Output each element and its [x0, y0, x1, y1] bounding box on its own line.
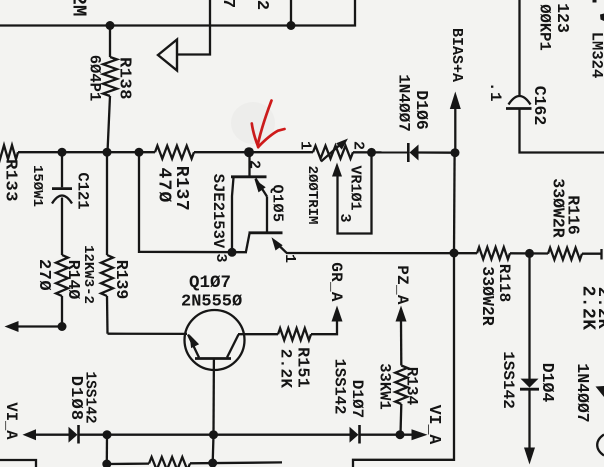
resistor R133 (cut at left edge): [0, 145, 18, 159]
node junction feedback: [135, 148, 144, 157]
svg-text:R133: R133: [0, 159, 19, 202]
node junction bottom mid: [208, 459, 217, 467]
node junction D104 top: [525, 249, 534, 258]
svg-text:47Ø: 47Ø: [154, 167, 174, 203]
svg-text:7: 7: [218, 0, 237, 8]
wire to open arrow: [178, 0, 210, 55]
svg-text:1: 1: [281, 254, 298, 263]
capacitor C121: [52, 152, 72, 255]
wire mid horizontal center: [194, 151, 313, 153]
resistor R151: [278, 328, 311, 340]
wire Q107 collector: [238, 333, 278, 335]
svg-text:3: 3: [212, 253, 229, 262]
svg-text:D1Ø6: D1Ø6: [412, 90, 431, 130]
node junction C121 top: [58, 148, 67, 157]
svg-text:2M: 2M: [68, 0, 90, 16]
resistor R116: [548, 248, 582, 260]
wire feedback loop: [139, 152, 247, 252]
svg-text:2.2K: 2.2K: [593, 287, 604, 330]
svg-text:VI_A: VI_A: [425, 405, 444, 445]
resistor R137: [155, 146, 194, 159]
svg-text:SJE2153V: SJE2153V: [209, 174, 227, 249]
diode D107: [350, 425, 360, 444]
wire long vertical right: [353, 253, 454, 467]
tick right edge: [600, 249, 602, 260]
arrow GR_A up: [332, 306, 343, 322]
node junction R140 bottom: [58, 322, 67, 331]
wire between R118 R116: [510, 252, 548, 254]
svg-text:2ØØTRIM: 2ØØTRIM: [304, 166, 320, 225]
arrow off-page V1_A left: [23, 429, 37, 440]
svg-text:D1Ø4: D1Ø4: [538, 363, 557, 403]
transistor Q107: [185, 310, 245, 435]
node junction R138/R139: [103, 148, 112, 157]
svg-text:1N4ØØ7: 1N4ØØ7: [395, 74, 413, 132]
potentiometer VR101: [313, 139, 353, 162]
smudge near arrow: [231, 102, 275, 144]
wire to Q107 emitter: [108, 333, 188, 335]
wire VR101 to D106: [353, 151, 407, 153]
arrow BIAS+A up: [450, 92, 461, 153]
capacitor C162: [506, 0, 604, 153]
circle fragment right edge: [597, 435, 604, 456]
svg-text:.1: .1: [486, 82, 504, 102]
svg-text:33KW1: 33KW1: [375, 363, 393, 410]
svg-text:LM324: LM324: [587, 32, 604, 79]
resistor R139: [101, 152, 113, 334]
node junction Q105 bottom: [228, 248, 237, 257]
svg-text:33ØW2R: 33ØW2R: [478, 266, 497, 326]
svg-text:1: 1: [297, 141, 314, 150]
node junction bottom left: [102, 460, 111, 467]
Q105 lower collector diag: [246, 234, 250, 252]
svg-text:R134: R134: [403, 367, 421, 406]
svg-text:1SS142: 1SS142: [81, 371, 97, 423]
Q105 upper emitter arrow: [255, 179, 268, 233]
node junction top: [287, 21, 296, 30]
diode D106: [408, 143, 455, 162]
wire mid horizontal left: [18, 151, 155, 153]
fragment glyph right edge: [600, 14, 604, 22]
node junction D108 rail: [103, 430, 112, 439]
svg-text:2.2K: 2.2K: [277, 349, 295, 389]
svg-text:1N4ØØ7: 1N4ØØ7: [573, 363, 592, 422]
svg-text:D1Ø7: D1Ø7: [348, 380, 366, 418]
wire D108 to D107: [79, 434, 350, 436]
svg-text:R138: R138: [114, 57, 133, 100]
svg-text:33ØW2R: 33ØW2R: [549, 178, 568, 238]
arrow V1_A right: [412, 429, 428, 440]
svg-text:27Ø: 27Ø: [34, 259, 53, 291]
node junction R138 top: [106, 21, 115, 30]
node junction Q105 base (red-arrow node): [244, 147, 254, 157]
wire Q105 pin1 rail: [286, 252, 477, 254]
svg-text:6Ø4P1: 6Ø4P1: [85, 55, 103, 102]
wire D107 to arrow: [360, 434, 412, 436]
svg-text:VR1Ø1: VR1Ø1: [347, 165, 364, 210]
diode D104: [520, 253, 539, 448]
wire to left arrow: [19, 325, 63, 327]
resistor bottom (cut at edge): [107, 457, 282, 467]
diode D108: [69, 425, 79, 444]
node junction VR101 wiper: [367, 148, 376, 157]
Q105 collector lead: [232, 178, 234, 253]
node junction BIAS: [451, 148, 460, 157]
wire x107 down: [106, 435, 108, 464]
fragment glyph top right: [593, 0, 597, 3]
wire V1 rail: [36, 434, 69, 436]
node junction R134 bottom: [396, 430, 405, 439]
svg-text:2: 2: [246, 160, 263, 169]
box corner bottom left: [0, 460, 36, 467]
wire bias vertical: [453, 153, 456, 253]
resistor R140: [56, 255, 68, 327]
arrow down D104: [524, 448, 535, 465]
wire top horizontal net: [0, 0, 355, 26]
resistor R118: [477, 247, 510, 259]
resistor R138: [103, 26, 117, 153]
svg-text:C162: C162: [530, 86, 549, 126]
resistor R134: [395, 366, 407, 435]
svg-text:R151: R151: [294, 347, 313, 388]
VR101 wiper arrow: [332, 153, 372, 234]
svg-text:3: 3: [336, 213, 353, 222]
node junction Q107 base rail: [209, 430, 218, 439]
svg-text:123: 123: [553, 3, 572, 33]
svg-text:BIAS+A: BIAS+A: [448, 28, 465, 82]
svg-text:2: 2: [252, 0, 271, 10]
svg-text:C121: C121: [73, 172, 91, 209]
open arrow connector (off-page, top left): [158, 40, 177, 71]
node junction rail/bias: [450, 249, 459, 258]
Q105 lower emitter arrow: [272, 237, 287, 253]
svg-text:GR_A: GR_A: [327, 262, 345, 302]
svg-text:1SS142: 1SS142: [499, 351, 517, 409]
wire R151 to GR_A: [311, 322, 337, 335]
wire R116 to edge: [582, 253, 602, 255]
diode fragment right edge: [596, 386, 604, 397]
svg-text:1SS142: 1SS142: [330, 359, 348, 415]
red annotation arrow: [252, 101, 285, 148]
svg-text:VI_A: VI_A: [2, 402, 20, 440]
arrow off-page left (mid): [5, 321, 19, 332]
svg-text:Q1Ø7: Q1Ø7: [189, 273, 231, 293]
svg-text:2: 2: [350, 141, 367, 150]
arrow PZ_A up: [396, 306, 407, 366]
transistor Q105 upper bar: [231, 152, 267, 177]
wire Q107 base down: [212, 435, 215, 463]
transistor Q105 lower bar: [249, 231, 283, 234]
svg-text:12KW3-2: 12KW3-2: [80, 245, 96, 304]
svg-text:ØØKP1: ØØKP1: [535, 4, 553, 51]
svg-text:15ØW1: 15ØW1: [29, 165, 45, 207]
svg-text:Q1Ø5: Q1Ø5: [269, 184, 286, 222]
wire stub to op-amp pin: [290, 0, 292, 26]
svg-text:PZ_A: PZ_A: [393, 265, 411, 305]
svg-text:2N555Ø: 2N555Ø: [181, 293, 242, 312]
svg-text:R139: R139: [112, 260, 131, 300]
